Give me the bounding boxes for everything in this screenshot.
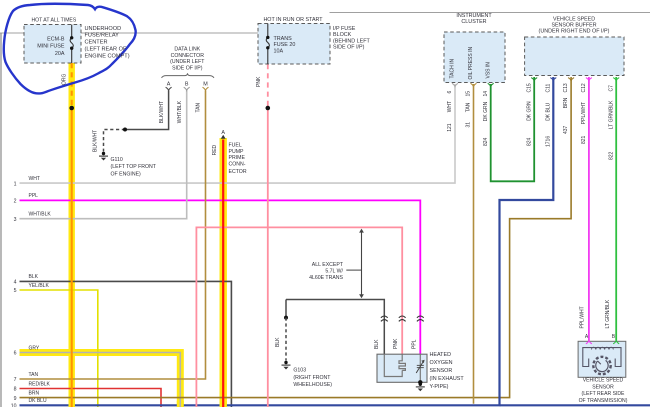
svg-text:ALL EXCEPT: ALL EXCEPT bbox=[312, 262, 344, 268]
svg-text:PUMP: PUMP bbox=[229, 149, 245, 155]
svg-text:1716: 1716 bbox=[545, 136, 551, 147]
svg-text:7: 7 bbox=[14, 377, 17, 383]
svg-text:(IN EXHAUST: (IN EXHAUST bbox=[430, 376, 465, 382]
svg-text:LT GRN/BLK: LT GRN/BLK bbox=[608, 100, 614, 129]
svg-text:10: 10 bbox=[11, 404, 17, 407]
svg-text:15: 15 bbox=[466, 91, 472, 97]
svg-text:B: B bbox=[185, 82, 189, 88]
svg-text:G103: G103 bbox=[293, 368, 306, 374]
svg-text:FUSE/RELAY: FUSE/RELAY bbox=[85, 33, 120, 39]
svg-text:HOT IN RUN OR START: HOT IN RUN OR START bbox=[263, 17, 323, 23]
svg-text:TAN: TAN bbox=[29, 372, 39, 378]
svg-text:822: 822 bbox=[608, 151, 614, 160]
svg-text:VSS IN: VSS IN bbox=[485, 62, 491, 79]
svg-text:437: 437 bbox=[563, 125, 569, 134]
svg-text:CLUSTER: CLUSTER bbox=[461, 19, 486, 25]
svg-text:A: A bbox=[221, 130, 225, 136]
svg-text:OF TRANSMISSION): OF TRANSMISSION) bbox=[579, 398, 628, 404]
svg-text:SENSOR: SENSOR bbox=[592, 384, 614, 390]
svg-text:WHT: WHT bbox=[29, 176, 40, 182]
svg-text:CONN-: CONN- bbox=[229, 162, 246, 168]
svg-text:PNK: PNK bbox=[256, 76, 262, 87]
svg-text:SENSOR: SENSOR bbox=[430, 368, 453, 374]
svg-text:TAN: TAN bbox=[196, 102, 202, 112]
svg-text:BLK/WHT: BLK/WHT bbox=[93, 130, 99, 152]
svg-text:PPL/WHT: PPL/WHT bbox=[581, 102, 587, 124]
svg-text:DATA LINK: DATA LINK bbox=[174, 47, 200, 53]
svg-text:10A: 10A bbox=[274, 49, 284, 55]
svg-text:PPL/WHT: PPL/WHT bbox=[579, 306, 585, 328]
svg-text:C13: C13 bbox=[563, 83, 569, 92]
svg-text:(LEFT REAR SIDE: (LEFT REAR SIDE bbox=[582, 391, 626, 397]
svg-text:C7: C7 bbox=[608, 85, 614, 92]
svg-text:5: 5 bbox=[14, 288, 17, 294]
svg-text:BLK: BLK bbox=[29, 274, 39, 280]
svg-text:DK GRN: DK GRN bbox=[483, 101, 489, 121]
svg-text:CONNECTOR: CONNECTOR bbox=[171, 53, 205, 59]
svg-text:8: 8 bbox=[14, 387, 17, 393]
svg-text:OF ENGINE): OF ENGINE) bbox=[111, 171, 142, 177]
svg-text:BRN: BRN bbox=[29, 390, 40, 396]
svg-text:(RIGHT FRONT: (RIGHT FRONT bbox=[293, 375, 331, 381]
svg-text:SIDE OF I/P): SIDE OF I/P) bbox=[333, 45, 365, 51]
svg-text:I/P FUSE: I/P FUSE bbox=[333, 26, 356, 32]
svg-text:LT GRN/BLK: LT GRN/BLK bbox=[605, 299, 611, 328]
svg-text:WHT/BLK: WHT/BLK bbox=[29, 212, 52, 218]
svg-text:(UNDER LEFT: (UNDER LEFT bbox=[170, 59, 205, 65]
svg-text:WHEELHOUSE): WHEELHOUSE) bbox=[293, 382, 332, 388]
svg-text:HEATED: HEATED bbox=[430, 352, 452, 358]
svg-text:PRIME: PRIME bbox=[229, 155, 246, 161]
svg-text:FUSE 20: FUSE 20 bbox=[274, 42, 296, 48]
svg-text:(LEFT REAR OF: (LEFT REAR OF bbox=[85, 47, 127, 53]
svg-text:3: 3 bbox=[14, 217, 17, 223]
svg-text:VEHICLE SPEED: VEHICLE SPEED bbox=[583, 378, 624, 384]
svg-text:PPL: PPL bbox=[29, 193, 39, 199]
svg-text:TRANS: TRANS bbox=[274, 36, 293, 42]
svg-text:FUEL: FUEL bbox=[229, 142, 242, 148]
svg-text:4: 4 bbox=[14, 280, 17, 286]
svg-text:RED/BLK: RED/BLK bbox=[29, 381, 51, 387]
svg-text:6: 6 bbox=[447, 91, 453, 94]
svg-text:SIDE OF I/P): SIDE OF I/P) bbox=[172, 65, 203, 71]
svg-text:PPL: PPL bbox=[412, 339, 418, 349]
svg-text:1: 1 bbox=[14, 181, 17, 187]
svg-text:31: 31 bbox=[466, 122, 472, 128]
svg-text:BRN: BRN bbox=[563, 97, 569, 108]
svg-text:DK BLU: DK BLU bbox=[29, 398, 47, 404]
svg-text:(LEFT TOP FRONT: (LEFT TOP FRONT bbox=[111, 164, 157, 170]
svg-text:C12: C12 bbox=[581, 83, 587, 92]
svg-text:OIL PRESS IN: OIL PRESS IN bbox=[468, 47, 474, 80]
svg-text:BLK: BLK bbox=[374, 339, 380, 349]
svg-text:G110: G110 bbox=[111, 157, 123, 163]
svg-text:DK BLU: DK BLU bbox=[545, 102, 551, 120]
svg-text:BLK/WHT: BLK/WHT bbox=[159, 101, 165, 123]
svg-text:2: 2 bbox=[14, 199, 17, 205]
svg-text:ECM-B: ECM-B bbox=[47, 36, 65, 42]
svg-text:WHT/BLK: WHT/BLK bbox=[177, 100, 183, 123]
svg-text:GRY: GRY bbox=[29, 345, 40, 351]
svg-text:(BEHIND LEFT: (BEHIND LEFT bbox=[333, 38, 371, 44]
svg-text:20A: 20A bbox=[55, 51, 65, 57]
svg-text:CENTER: CENTER bbox=[85, 39, 108, 45]
svg-text:DK GRN: DK GRN bbox=[526, 101, 532, 121]
svg-text:TACH IN: TACH IN bbox=[450, 58, 456, 78]
svg-text:HOT AT ALL TIMES: HOT AT ALL TIMES bbox=[32, 18, 77, 24]
svg-text:C11: C11 bbox=[545, 83, 551, 92]
svg-text:C15: C15 bbox=[526, 83, 532, 92]
svg-text:PNK: PNK bbox=[393, 338, 399, 349]
svg-text:MINI FUSE: MINI FUSE bbox=[37, 44, 65, 50]
svg-text:ENGINE COMPT): ENGINE COMPT) bbox=[85, 54, 130, 60]
svg-text:M: M bbox=[203, 82, 208, 88]
svg-text:824: 824 bbox=[526, 137, 532, 146]
svg-text:A: A bbox=[167, 82, 171, 88]
svg-text:824: 824 bbox=[483, 137, 489, 146]
svg-text:TAN: TAN bbox=[466, 102, 472, 112]
svg-text:14: 14 bbox=[483, 91, 489, 97]
svg-text:9: 9 bbox=[14, 396, 17, 402]
svg-text:Y-PIPE): Y-PIPE) bbox=[430, 384, 449, 390]
svg-text:4L60E TRANS: 4L60E TRANS bbox=[309, 275, 343, 281]
svg-text:821: 821 bbox=[581, 135, 587, 144]
svg-text:UNDERHOOD: UNDERHOOD bbox=[85, 26, 122, 32]
svg-text:ORG: ORG bbox=[61, 74, 67, 86]
svg-text:121: 121 bbox=[447, 123, 453, 132]
svg-text:WHT: WHT bbox=[447, 101, 453, 112]
svg-text:INSTRUMENT: INSTRUMENT bbox=[456, 13, 492, 19]
svg-text:(UNDER RIGHT END OF I/P): (UNDER RIGHT END OF I/P) bbox=[539, 29, 610, 35]
svg-text:OXYGEN: OXYGEN bbox=[430, 360, 453, 366]
svg-text:BLK: BLK bbox=[275, 337, 281, 347]
svg-text:YEL/BLK: YEL/BLK bbox=[29, 283, 50, 289]
svg-text:5.7L W/: 5.7L W/ bbox=[325, 269, 343, 275]
svg-text:6: 6 bbox=[14, 351, 17, 357]
svg-text:BLOCK: BLOCK bbox=[333, 32, 352, 38]
svg-text:ECTOR: ECTOR bbox=[229, 169, 247, 175]
svg-text:RED: RED bbox=[212, 144, 218, 155]
